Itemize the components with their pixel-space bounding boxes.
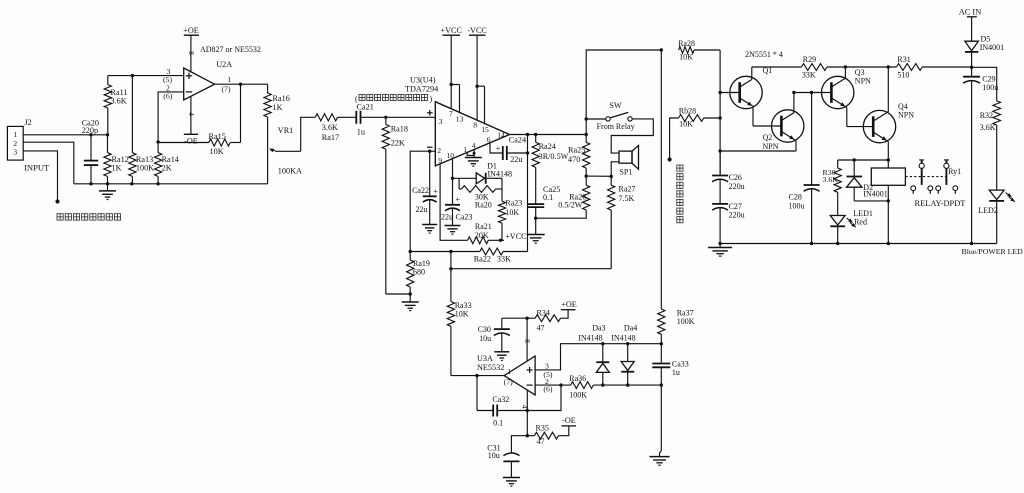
terminal AC IN <box>959 8 982 42</box>
capacitor C28 100u <box>789 93 820 244</box>
svg-text:14: 14 <box>497 130 505 139</box>
relay contacts RELAY-DPDT <box>905 160 965 208</box>
svg-text:NPN: NPN <box>898 111 914 120</box>
svg-text:220p: 220p <box>82 126 98 135</box>
svg-text:0.5/2W: 0.5/2W <box>558 201 583 210</box>
wire output node down to feedback row <box>527 135 529 252</box>
svg-text:1K: 1K <box>112 164 122 173</box>
ground TDA7294 pins 1 4 <box>465 150 482 167</box>
svg-text:Ra23: Ra23 <box>505 198 522 207</box>
wire U3A -input <box>535 383 563 386</box>
svg-text:-VCC: -VCC <box>467 26 487 35</box>
svg-text:NPN: NPN <box>763 142 779 151</box>
svg-text:J2: J2 <box>25 118 32 127</box>
svg-text:10K: 10K <box>679 53 693 62</box>
svg-text:100KA: 100KA <box>278 167 302 176</box>
svg-text:SP1: SP1 <box>619 167 632 176</box>
svg-text:1: 1 <box>507 367 511 376</box>
svg-text:(5): (5) <box>163 75 172 84</box>
transistor Q1 2N5551 <box>720 66 772 126</box>
capacitor Ca25 0.1 zobel <box>527 185 560 220</box>
svg-text:510: 510 <box>897 71 909 80</box>
svg-text:470: 470 <box>568 155 580 164</box>
svg-text:4: 4 <box>472 141 476 150</box>
label 2N5551 * 4 <box>745 50 783 59</box>
svg-text:7: 7 <box>449 109 453 118</box>
svg-text:Ca21: Ca21 <box>357 102 374 111</box>
wire feedback from output <box>240 84 242 142</box>
capacitor Ca23 22u <box>441 194 472 234</box>
wire main output sense line down <box>660 50 662 309</box>
wire Q2 collector to Q3 base <box>792 91 831 94</box>
diode D2 IN4001 flyback <box>847 160 891 203</box>
connector J2 INPUT <box>7 118 50 173</box>
diode Da3 IN4148 <box>578 323 609 385</box>
LED LED1 Red <box>830 209 873 243</box>
resistor R32 3.6K <box>972 67 1001 190</box>
svg-text:100u: 100u <box>789 201 805 210</box>
svg-text:C29: C29 <box>982 74 995 83</box>
wire J2 pin2 to bottom rail <box>23 142 74 184</box>
svg-text:(7): (7) <box>504 378 513 387</box>
svg-text:1K: 1K <box>273 103 283 112</box>
diode D1 IN4148 <box>453 162 512 190</box>
svg-text:10K: 10K <box>210 147 224 156</box>
svg-text:R29: R29 <box>803 55 816 64</box>
svg-text:22u: 22u <box>510 155 522 164</box>
wire VR1 wiper riser <box>301 117 316 151</box>
svg-text:33K: 33K <box>802 71 816 80</box>
svg-text:10: 10 <box>447 151 455 160</box>
wire collector rail <box>752 65 972 68</box>
wire U2A -input <box>156 92 183 144</box>
svg-text:+VCC: +VCC <box>440 26 462 35</box>
wire U3A output row <box>451 374 504 377</box>
svg-text:R34: R34 <box>537 309 550 318</box>
capacitor C27 220u <box>712 202 745 244</box>
svg-text:C26: C26 <box>729 173 742 182</box>
svg-text:-OE: -OE <box>562 416 576 425</box>
svg-text:AD827 or NE5532: AD827 or NE5532 <box>200 45 261 54</box>
svg-text:Ra28: Ra28 <box>678 39 695 48</box>
svg-text:Ra27: Ra27 <box>619 184 636 193</box>
resistor Ra24 3R/0.5W zobel <box>532 135 569 205</box>
transistor Q3 NPN <box>822 67 872 127</box>
wire SW to speaker <box>611 119 653 153</box>
svg-text:NE5532: NE5532 <box>477 363 504 372</box>
svg-text:Ca23: Ca23 <box>456 213 473 222</box>
svg-text:R31: R31 <box>897 55 910 64</box>
svg-text:R35: R35 <box>536 424 549 433</box>
power +VCC terminal pins 7 13 <box>440 26 462 113</box>
ground input rail <box>99 184 116 200</box>
svg-text:(: ( <box>355 94 358 103</box>
svg-text:Ra22: Ra22 <box>474 255 491 264</box>
svg-text:): ) <box>430 94 433 103</box>
svg-text:10u: 10u <box>479 334 491 343</box>
svg-text:IN4001: IN4001 <box>863 190 887 199</box>
wire U3A -input to Ca32 node <box>526 385 561 412</box>
svg-text:22u: 22u <box>416 205 428 214</box>
wire node A vertical <box>718 50 721 176</box>
svg-text:2: 2 <box>13 139 17 148</box>
label: removable jumper note (Chinese) <box>355 94 433 103</box>
svg-text:47: 47 <box>537 437 545 446</box>
svg-text:Ca24: Ca24 <box>509 136 526 145</box>
svg-text:Ra16: Ra16 <box>273 94 290 103</box>
transistor Q2 NPN <box>753 93 804 152</box>
svg-text:9: 9 <box>438 156 442 165</box>
resistor Ra13 100K <box>129 76 154 184</box>
resistor Ra20 30K <box>459 186 502 210</box>
svg-text:Ra20: Ra20 <box>475 201 492 210</box>
wire speaker low side <box>586 162 619 178</box>
svg-text:1u: 1u <box>357 128 365 137</box>
svg-text:U2A: U2A <box>216 60 232 69</box>
svg-text:Ca32: Ca32 <box>492 395 509 404</box>
svg-text:4: 4 <box>520 405 528 409</box>
wire TDA -input feedback node <box>409 150 436 254</box>
svg-text:+VCC: +VCC <box>505 232 527 241</box>
svg-text:47: 47 <box>537 323 545 332</box>
wire J2 pin1 to Ra11/Ra12 node <box>23 133 109 136</box>
svg-text:0.1: 0.1 <box>493 419 503 428</box>
diode Da4 IN4148 <box>611 323 637 385</box>
wire U2A output to Ra16 <box>215 83 268 86</box>
capacitor Ca22 22u <box>412 151 438 233</box>
svg-text:8: 8 <box>473 120 477 129</box>
op-amp U3A NE5532 comparator <box>477 354 553 395</box>
resistor Ra23 10K <box>498 189 522 240</box>
capacitor Ca21 1u <box>356 102 435 136</box>
svg-text:13: 13 <box>456 114 464 123</box>
svg-text:INPUT: INPUT <box>24 163 50 173</box>
svg-text:IN4001: IN4001 <box>980 43 1004 52</box>
wire sense line to ground <box>650 385 670 465</box>
resistor Ra28 10K <box>678 39 720 62</box>
svg-text:22u: 22u <box>441 213 453 222</box>
svg-text:U3(U4): U3(U4) <box>410 76 436 85</box>
svg-text:RELAY-DPDT: RELAY-DPDT <box>915 199 966 208</box>
resistor Ra27 7.5K <box>608 177 636 269</box>
power -OE terminal for U2A pin 4 <box>184 96 198 145</box>
wire TDA pin 10 stub <box>451 159 454 205</box>
svg-text:8: 8 <box>523 339 531 343</box>
svg-text:Ra24: Ra24 <box>539 142 556 151</box>
svg-text:+: + <box>455 194 460 204</box>
LED LED2 Blue/POWER <box>962 190 1024 256</box>
svg-text:Ry1: Ry1 <box>948 167 961 176</box>
svg-text:R32: R32 <box>980 111 993 120</box>
relay coil Ry1 <box>871 160 905 244</box>
svg-text:NPN: NPN <box>855 76 871 85</box>
svg-text:LED2: LED2 <box>978 206 998 215</box>
svg-text:1u: 1u <box>672 368 680 377</box>
resistor Ra12 1K <box>104 135 129 184</box>
svg-text:From Relay: From Relay <box>597 122 635 131</box>
wire Q2 emitter to node A <box>720 150 796 152</box>
svg-text:10K: 10K <box>455 310 469 319</box>
capacitor Ca33 1u <box>652 344 688 385</box>
svg-text:Ra21: Ra21 <box>475 222 492 231</box>
svg-text:(6): (6) <box>163 91 172 100</box>
resistor Ra22 33K feedback <box>410 248 527 264</box>
svg-text:Blue/POWER LED: Blue/POWER LED <box>962 247 1024 256</box>
svg-text:Rb28: Rb28 <box>679 107 696 116</box>
svg-text:+: + <box>433 186 438 196</box>
svg-text:10u: 10u <box>488 451 500 460</box>
svg-text:3R/0.5W: 3R/0.5W <box>539 152 569 161</box>
svg-text:3.6K: 3.6K <box>980 123 996 132</box>
svg-text:33K: 33K <box>497 255 511 264</box>
svg-text:IN4148: IN4148 <box>578 333 602 342</box>
svg-text:Ra25: Ra25 <box>568 145 585 154</box>
svg-text:C27: C27 <box>729 202 742 211</box>
transistor Q4 NPN <box>847 67 914 160</box>
resistor R34 47 to +OE <box>527 300 577 332</box>
wire J2 pin3 to other-channel input stub <box>23 151 59 204</box>
svg-text:4: 4 <box>187 112 195 116</box>
wire zobel to Ra26 bottom <box>536 210 587 218</box>
svg-text:C28: C28 <box>789 193 802 202</box>
wire U3A V- pin 4 <box>520 390 529 437</box>
svg-text:Da3: Da3 <box>592 323 605 332</box>
svg-text:3: 3 <box>439 117 443 126</box>
svg-text:+: + <box>496 144 501 153</box>
wire relay drive row <box>838 158 890 161</box>
resistor Ra11 3.6K <box>104 76 127 135</box>
op-amp U2A AD827 or NE5532 <box>163 45 261 100</box>
svg-text:3.6K: 3.6K <box>823 175 839 184</box>
resistor Ra17 3.6K <box>315 114 356 142</box>
resistor Ra26 0.5/2W <box>558 176 590 210</box>
label: to other channel input (Chinese) <box>57 214 121 220</box>
svg-text:TDA7294: TDA7294 <box>405 85 438 94</box>
svg-text:Ra37: Ra37 <box>677 308 694 317</box>
resistor Ra14 2K <box>155 142 179 184</box>
resistor Ra21 20K standby pin 9 <box>440 164 527 244</box>
wire output node riser to relay switch line <box>585 48 664 134</box>
capacitor Ca20 220p <box>82 118 99 183</box>
svg-text:220u: 220u <box>729 182 745 191</box>
wire op-amp +input line <box>108 74 184 77</box>
svg-text:AC IN: AC IN <box>959 8 982 17</box>
svg-text:15: 15 <box>481 125 489 134</box>
resistor Ra33 10K <box>447 301 471 376</box>
svg-text:680: 680 <box>413 268 425 277</box>
svg-text:Ra18: Ra18 <box>391 125 408 134</box>
svg-text:Q2: Q2 <box>763 133 773 142</box>
svg-text:220u: 220u <box>729 211 745 220</box>
svg-text:10K: 10K <box>679 120 693 129</box>
svg-text:7.5K: 7.5K <box>619 194 635 203</box>
svg-text:2N5551 * 4: 2N5551 * 4 <box>745 50 783 59</box>
wire Ra18 bottom to Ra19 bottom <box>386 293 410 295</box>
svg-text:100K: 100K <box>136 164 154 173</box>
svg-text:100u: 100u <box>982 83 998 92</box>
ground Ra19 <box>402 292 419 310</box>
resistor Ra37 100K <box>658 308 695 345</box>
wire input bottom rail <box>74 182 268 185</box>
svg-text:IN4148: IN4148 <box>611 333 635 342</box>
capacitor C26 220u <box>712 151 745 204</box>
svg-text:+OE: +OE <box>561 300 577 309</box>
svg-text:VR1: VR1 <box>278 126 293 135</box>
resistor R31 510 <box>897 55 923 80</box>
capacitor C31 10u <box>487 436 527 486</box>
svg-text:IN4148: IN4148 <box>488 169 512 178</box>
label: to other channel output (Chinese vertical) <box>677 165 683 223</box>
svg-text:22K: 22K <box>391 139 405 148</box>
switch SW From Relay <box>586 101 634 131</box>
svg-text:U3A: U3A <box>477 354 493 363</box>
ground main rail <box>708 242 732 256</box>
svg-text:2K: 2K <box>162 164 172 173</box>
wire VR1 bottom to rail <box>267 183 269 185</box>
svg-text:2: 2 <box>437 146 441 155</box>
resistor Rb28 10K other channel sense <box>668 107 721 162</box>
resistor Ra16 1K <box>264 84 290 117</box>
svg-text:SW: SW <box>609 101 622 110</box>
power -VCC terminal pins 8 15 <box>467 26 487 124</box>
diode D5 IN4001 <box>965 35 1004 70</box>
wire feedback node down to Ra33 <box>450 252 452 302</box>
svg-text:Ra36: Ra36 <box>569 374 586 383</box>
svg-text:8: 8 <box>187 51 195 55</box>
resistor R29 33K <box>801 55 827 80</box>
power amplifier U3(U4) TDA7294 <box>405 76 510 166</box>
wire TDA7294 output pin 14 <box>510 133 588 136</box>
svg-text:3.6K: 3.6K <box>111 97 127 106</box>
speaker SP1 <box>619 145 639 176</box>
svg-text:20K: 20K <box>475 231 489 240</box>
capacitor Ca32 0.1 feedback <box>477 376 527 428</box>
svg-text:10K: 10K <box>505 208 519 217</box>
resistor Ra25 470 <box>568 135 590 178</box>
svg-text:Ra15: Ra15 <box>209 132 226 141</box>
wire U3A +input <box>535 342 661 370</box>
svg-text:Da4: Da4 <box>624 323 637 332</box>
svg-text:100K: 100K <box>677 317 695 326</box>
power +OE terminal for U2A pin 8 <box>183 26 199 72</box>
svg-text:C30: C30 <box>478 325 491 334</box>
svg-text:100K: 100K <box>569 390 587 399</box>
svg-text:0.1: 0.1 <box>543 193 553 202</box>
wire bottom rail right section <box>720 242 997 245</box>
svg-text:-OE: -OE <box>184 137 198 146</box>
svg-text:(6): (6) <box>543 385 552 394</box>
svg-text:Ra17: Ra17 <box>322 133 339 142</box>
capacitor C30 10u <box>478 318 510 360</box>
resistor Ra36 100K <box>561 374 663 399</box>
svg-text:+OE: +OE <box>183 26 199 35</box>
capacitor Ca24 22u bootstrap pin 6 <box>490 136 529 165</box>
potentiometer VR1 100KA <box>268 117 302 184</box>
resistor Ra18 22K <box>382 116 408 294</box>
svg-text:Ca22: Ca22 <box>412 186 429 195</box>
ground zobel <box>527 218 545 243</box>
svg-text:3: 3 <box>13 148 17 157</box>
wire speaker sense row to Ra33 <box>449 267 611 270</box>
capacitor C29 100u <box>963 67 998 243</box>
resistor R30 3.6K <box>823 160 842 216</box>
svg-text:Red: Red <box>854 218 867 227</box>
svg-text:(7): (7) <box>221 84 230 93</box>
resistor R35 47 to -OE <box>527 416 576 446</box>
wire U3A V+ pin 8 <box>502 317 531 362</box>
resistor Ra15 10K <box>158 132 240 156</box>
svg-text:3.6K: 3.6K <box>322 123 338 132</box>
svg-text:1: 1 <box>227 75 231 84</box>
resistor Ra19 680 <box>407 252 430 295</box>
